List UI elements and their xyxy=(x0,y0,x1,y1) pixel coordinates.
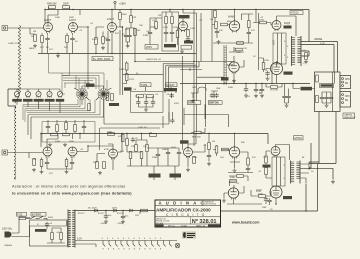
svg-text:BY127: BY127 xyxy=(78,213,85,215)
wire: in-box verticals xyxy=(333,72,335,112)
wire: V2 out verticals xyxy=(120,27,123,95)
svg-text:TAPE: TAPE xyxy=(141,83,148,87)
wire: bottom bus y211 xyxy=(221,143,318,211)
rotary switch S1 xyxy=(76,88,87,99)
svg-text:lo encuentran en el sitio www.: lo encuentran en el sitio www.pcrepara.c… xyxy=(12,192,132,196)
svg-text:15K: 15K xyxy=(219,30,223,32)
ground tone2 xyxy=(63,143,67,147)
capacitor C7' xyxy=(156,152,160,157)
svg-text:250V: 250V xyxy=(112,208,118,210)
svg-text:PARLANTE: PARLANTE xyxy=(344,116,356,119)
wire: V2 cathode xyxy=(96,31,112,54)
dark label T1 xyxy=(124,87,132,90)
resistor R16 xyxy=(187,30,190,37)
tube V1B' xyxy=(68,147,77,158)
ground ch2a xyxy=(32,168,36,172)
svg-text:S.REC 1KΩ: S.REC 1KΩ xyxy=(8,43,20,45)
wire: cout links xyxy=(285,84,289,104)
ground R18' xyxy=(207,162,211,166)
tube V4 xyxy=(228,16,240,33)
capacitor Cf1 xyxy=(104,214,113,219)
capacitor C8' xyxy=(166,150,170,155)
svg-text:470K: 470K xyxy=(92,39,98,41)
capacitor C8 xyxy=(127,33,131,38)
output block 2 xyxy=(272,157,286,186)
capacitor Cp1 xyxy=(45,222,53,227)
label box S1 xyxy=(86,84,95,87)
wire: bundle above stars xyxy=(49,54,108,95)
B+ entry terminal xyxy=(114,1,126,9)
resistor Rm1 xyxy=(106,94,109,101)
wire: fb drops xyxy=(45,7,70,23)
output block xyxy=(273,33,287,64)
transistor pair network xyxy=(191,87,218,98)
boxed label OT2 xyxy=(294,136,304,140)
wire: V1 input xyxy=(8,28,44,34)
capacitor Ct4 xyxy=(46,124,50,129)
resistor Rx128b xyxy=(118,135,124,142)
input jack ch2 xyxy=(2,150,8,155)
svg-text:8Ω: 8Ω xyxy=(345,82,348,85)
wire: y74.4 line xyxy=(123,73,164,75)
svg-text:47K: 47K xyxy=(125,29,129,31)
wire: tape monitor triple xyxy=(163,62,199,92)
wire: feedback line ch2 xyxy=(41,134,268,145)
tube V2' xyxy=(109,149,118,160)
wire: B+ chain xyxy=(126,10,135,62)
svg-text:6AQ5: 6AQ5 xyxy=(284,22,291,25)
resistor R20 xyxy=(248,21,251,28)
value labels channel1 top xyxy=(33,15,306,105)
svg-text:TAMB 1-66: TAMB 1-66 xyxy=(196,224,205,227)
svg-text:22K: 22K xyxy=(131,146,135,148)
resistor Rx128c xyxy=(149,133,157,137)
wire: under box verticals xyxy=(319,112,336,164)
svg-text:1M: 1M xyxy=(210,19,213,21)
ground ch2c xyxy=(65,170,69,174)
resistor R23 xyxy=(259,20,267,24)
svg-text:HOJA 1: HOJA 1 xyxy=(181,224,187,227)
tube V2 xyxy=(107,18,117,33)
resistor R3 feedback xyxy=(47,3,57,9)
wire: to box xyxy=(293,84,315,89)
resistor R10' xyxy=(129,152,132,159)
svg-text:32MF: 32MF xyxy=(143,35,149,37)
svg-text:6AN8: 6AN8 xyxy=(227,64,234,67)
transformer OT1 xyxy=(292,36,302,66)
capacitor Cm3 xyxy=(214,93,218,98)
boxed label FUSE xyxy=(17,212,27,216)
svg-text:470K: 470K xyxy=(173,27,179,29)
capacitor Cs2 xyxy=(324,95,328,100)
resistor R23' xyxy=(258,194,266,198)
resistor R1 grid xyxy=(31,35,36,42)
wire: V4' xyxy=(230,134,248,169)
wire: V6' grid xyxy=(251,190,271,205)
resistor Rp1 xyxy=(51,233,54,240)
capacitor C3' xyxy=(70,160,74,165)
switch contacts xyxy=(31,216,47,220)
resistor Rs2 xyxy=(316,96,319,103)
boxed label left of box xyxy=(145,45,158,50)
resistor R14 xyxy=(155,22,158,29)
wire: ch2 input xyxy=(8,153,44,159)
dark label in box xyxy=(320,84,334,88)
capacitor Cn2 xyxy=(144,100,148,105)
resistor R13 in box xyxy=(171,17,174,24)
resistor Rn1 xyxy=(137,95,144,98)
dark label V7' xyxy=(283,196,292,199)
svg-text:100K: 100K xyxy=(190,28,196,30)
svg-text:12AX7: 12AX7 xyxy=(69,19,77,22)
dark label under band xyxy=(221,77,229,80)
cap network box xyxy=(131,91,164,112)
resistor R3' feedback xyxy=(51,133,58,136)
boxed label LOAD xyxy=(343,113,356,119)
dark label lc xyxy=(263,165,271,168)
svg-text:47K: 47K xyxy=(251,30,255,32)
diode D2 xyxy=(113,209,118,212)
resistor R4' xyxy=(65,160,68,167)
svg-text:3.2Ω: 3.2Ω xyxy=(320,43,325,45)
resistor Rn2 xyxy=(147,95,154,98)
resistor Rm4 xyxy=(270,86,279,92)
ground V7 xyxy=(266,77,270,81)
svg-text:10K: 10K xyxy=(137,30,141,32)
resistor Rb1 on x126.7 xyxy=(125,63,128,70)
wire: c47 xyxy=(246,84,256,88)
ground V4' xyxy=(233,169,237,173)
ground V1A xyxy=(33,44,37,48)
svg-text:470K: 470K xyxy=(163,27,169,29)
wire: V2' links xyxy=(88,134,122,171)
capacitor C1' xyxy=(45,160,49,165)
boxed label mid-ch2 xyxy=(180,140,189,143)
wire: V7' bottom xyxy=(275,198,277,204)
tube V1A xyxy=(44,19,53,33)
svg-text:GRAB.: GRAB. xyxy=(188,102,196,105)
speaker box ch1 xyxy=(315,72,341,112)
svg-text:270V: 270V xyxy=(129,79,135,81)
capacitor Cout1 xyxy=(282,94,286,99)
svg-text:250P: 250P xyxy=(69,141,75,143)
svg-text:12AU7 50K .02: 12AU7 50K .02 xyxy=(146,58,162,61)
dark label C22 xyxy=(170,174,182,178)
boxed label SWITCH xyxy=(31,212,46,216)
resistor R24 under OT xyxy=(305,53,308,60)
tube V6' output xyxy=(271,147,280,158)
pot P3 xyxy=(36,91,41,98)
wire: lc links xyxy=(266,163,272,178)
capacitor C3 cathode V1B xyxy=(70,36,78,43)
resistor R9' plate xyxy=(126,139,129,146)
svg-text:OUT: OUT xyxy=(273,39,276,45)
wire: V7 links xyxy=(266,61,277,84)
resistor R10 xyxy=(130,16,137,23)
svg-text:BY127: BY127 xyxy=(98,213,105,215)
wire: y172 line xyxy=(228,165,253,173)
svg-text:100K: 100K xyxy=(55,141,61,143)
wire: plug to psu xyxy=(16,218,30,237)
transformer OT2 xyxy=(291,161,301,184)
resistor R21' xyxy=(237,175,244,178)
resistor R17' xyxy=(208,143,211,150)
wire: y128 line xyxy=(99,112,172,150)
dark label 6AQ5 xyxy=(284,26,292,29)
svg-text:REV. 20: REV. 20 xyxy=(168,225,175,227)
wire: y114.5 link xyxy=(184,108,228,127)
svg-text:1M: 1M xyxy=(33,159,36,161)
svg-text:470K: 470K xyxy=(256,191,262,193)
resistor R4 cathode V1B xyxy=(64,36,69,50)
svg-text:C I R C U I T O: C I R C U I T O xyxy=(166,213,206,217)
capacitor C2' feedback xyxy=(63,133,70,136)
wire: ch1 bottom bus xyxy=(38,53,196,55)
diode D3 xyxy=(129,209,134,212)
resistor R22' xyxy=(230,180,237,183)
capacitor Cf2 xyxy=(121,214,130,219)
svg-text:47K: 47K xyxy=(252,157,256,159)
capacitor Cx1 xyxy=(170,118,174,123)
wire: box caps gnd xyxy=(322,101,331,103)
ground tone1 xyxy=(48,143,52,147)
resistor R11 xyxy=(134,29,141,36)
dark label V7 xyxy=(284,72,293,75)
wire: OT2 taps xyxy=(300,164,311,183)
resistor Rt2 xyxy=(65,123,68,130)
svg-text:454545454545: 454545454545 xyxy=(102,238,166,240)
ground Cm4 xyxy=(244,94,248,98)
svg-text:100K: 100K xyxy=(55,17,61,19)
svg-text:10K: 10K xyxy=(143,146,147,148)
resistor R18' xyxy=(215,146,218,153)
resistor below star xyxy=(88,104,91,111)
svg-text:ELECTRONICA: ELECTRONICA xyxy=(204,203,217,206)
pot P4 xyxy=(47,91,52,98)
wire: R9 xyxy=(117,10,123,28)
svg-text:330K: 330K xyxy=(228,87,234,89)
boxed label TAPE1 xyxy=(140,83,151,87)
dark label C21 xyxy=(149,174,161,178)
boxed label V3c xyxy=(181,46,192,50)
svg-text:1M: 1M xyxy=(212,141,215,143)
svg-text:470K: 470K xyxy=(264,60,270,62)
capacitor C1 cathode xyxy=(45,36,49,49)
capacitor C13' xyxy=(207,153,211,158)
resistor R-fb2 squiggle xyxy=(191,128,205,139)
resistor Rs1 xyxy=(316,75,319,82)
wire: verticals under splitter xyxy=(183,56,206,150)
svg-text:1K 10W: 1K 10W xyxy=(270,90,279,92)
wire: cap net links xyxy=(135,87,171,107)
svg-text:6AN8: 6AN8 xyxy=(228,16,235,19)
wire: splitter xyxy=(212,10,253,39)
terminal strip A xyxy=(340,76,351,89)
capacitor C11 xyxy=(146,30,152,35)
resistor Rt1 xyxy=(56,125,59,132)
wire: V1B to V2 xyxy=(78,10,89,90)
svg-text:1MF: 1MF xyxy=(216,88,221,90)
svg-text:20MF: 20MF xyxy=(162,149,168,151)
svg-text:6AV6: 6AV6 xyxy=(29,47,35,50)
capacitor Cs3 xyxy=(329,95,333,100)
ground Cf2 xyxy=(121,220,125,224)
boxed label top-right xyxy=(290,11,303,15)
capacitor C9' xyxy=(177,150,181,155)
resistor R8 xyxy=(102,37,109,44)
svg-text:1M: 1M xyxy=(107,92,110,94)
tube V6 output xyxy=(272,21,291,32)
svg-text:12K: 12K xyxy=(243,48,247,50)
resistor left col1 xyxy=(265,156,268,163)
dark label left of box xyxy=(301,87,313,91)
ground bus ch1 xyxy=(56,54,60,58)
tube V1B xyxy=(69,19,78,33)
wire: trafo heater out xyxy=(75,241,100,248)
wire: y69.5 stub xyxy=(180,68,224,77)
capacitor Cm4 xyxy=(244,87,248,92)
svg-text:1M: 1M xyxy=(158,15,161,17)
svg-text:470K: 470K xyxy=(258,194,264,196)
svg-text:250P: 250P xyxy=(69,17,75,19)
svg-text:SPK: SPK xyxy=(345,95,350,98)
label in box xyxy=(164,44,176,47)
svg-text:BY127: BY127 xyxy=(117,213,124,215)
label strip P3 xyxy=(34,99,44,102)
svg-text:250V: 250V xyxy=(146,45,152,49)
resistor R7 xyxy=(92,38,98,45)
ground V2' xyxy=(98,171,102,175)
resistor left col2 xyxy=(265,168,268,175)
svg-text:+285V: +285V xyxy=(117,223,124,225)
svg-text:220K: 220K xyxy=(122,14,128,16)
resistor R2 cathode xyxy=(40,36,45,50)
rotary switch S2 xyxy=(98,88,109,99)
heater chain xyxy=(100,241,177,247)
wire: V5' pins xyxy=(224,186,244,204)
shield zigzag xyxy=(14,106,16,180)
wire: V5 pins xyxy=(229,60,244,84)
wire: to V5 xyxy=(229,47,244,62)
wire: OT1 taps xyxy=(301,42,338,73)
boxed label TAPE2 xyxy=(166,83,178,87)
wire: to V5' xyxy=(229,176,248,188)
dark label T1b xyxy=(109,103,119,106)
wire: x126.7 chain xyxy=(123,62,127,84)
label strip P1 xyxy=(12,99,22,102)
wire: cbus1 xyxy=(261,84,263,88)
resistor Rm2 xyxy=(111,94,114,101)
wire: star links xyxy=(82,86,104,88)
capacitor C7 xyxy=(122,33,128,38)
wire: rm4 xyxy=(266,64,282,87)
svg-text:12AX7: 12AX7 xyxy=(107,18,115,21)
label strip P2 xyxy=(23,99,33,102)
tube V4' xyxy=(229,147,239,159)
tube V5 xyxy=(227,62,239,74)
ground R18 xyxy=(217,40,221,44)
wire: y204 line xyxy=(227,203,262,205)
capacitor C12 xyxy=(186,37,190,42)
cap net in box xyxy=(322,92,331,95)
wire: rv7 xyxy=(259,58,264,72)
capacitor Cy2 xyxy=(267,198,271,203)
resistor Rb2 on x126.7 xyxy=(125,74,128,81)
svg-text:SIL 300V: SIL 300V xyxy=(88,208,97,210)
tube V1A' xyxy=(43,147,52,158)
resistor R21 on y43 xyxy=(237,42,244,45)
wire: OT2 right links xyxy=(309,162,336,180)
pot P2 xyxy=(25,91,30,98)
resistor R12' xyxy=(140,152,143,159)
shield zigzag upper xyxy=(15,25,21,103)
capacitor Cx128 xyxy=(131,137,139,142)
capacitor C14 xyxy=(247,30,251,35)
label strip P5 xyxy=(56,99,64,102)
wire: verticals 194-196 mid xyxy=(194,62,205,147)
input jack ch1 xyxy=(2,26,8,31)
capacitor Cs1 xyxy=(320,95,324,100)
capacitor Cm2 xyxy=(210,93,214,98)
value labels channel2 xyxy=(33,141,314,211)
ground V3' xyxy=(186,168,190,172)
wire: box connects xyxy=(166,10,172,43)
wire: splitter2 xyxy=(209,134,229,162)
ground Cout xyxy=(285,104,289,108)
ground V3 xyxy=(180,50,184,54)
wire: cathode bus ch1 xyxy=(42,33,73,54)
svg-text:NFB 56K: NFB 56K xyxy=(192,137,201,139)
resistor R11' xyxy=(135,145,138,152)
wire: nest horizontals xyxy=(23,99,104,122)
capacitor C6 xyxy=(106,37,110,42)
diode D1 xyxy=(94,209,99,212)
pilot lamp xyxy=(175,243,180,248)
capacitor Cn1 xyxy=(136,100,140,105)
tube V7' big xyxy=(270,186,282,198)
svg-text:FUS.: FUS. xyxy=(17,213,23,216)
wire: ch2 B chain xyxy=(127,134,179,167)
capacitor C9 in box xyxy=(164,30,168,35)
resistor Rx128a xyxy=(107,132,115,136)
capacitor C47MF xyxy=(254,87,263,95)
svg-text:10K: 10K xyxy=(139,25,143,27)
svg-text:1M: 1M xyxy=(33,31,36,33)
ground ch2b xyxy=(40,170,44,174)
wire: V6' top xyxy=(266,145,290,161)
resistor R22 xyxy=(235,48,242,51)
svg-text:400V: 400V xyxy=(48,217,54,219)
capacitor Cbus1 xyxy=(260,87,264,92)
svg-text:470K: 470K xyxy=(104,149,110,151)
capacitor Cn4 xyxy=(170,93,174,98)
capacitor Cout2 xyxy=(286,94,290,99)
tube V3' xyxy=(184,148,193,159)
svg-text:450V: 450V xyxy=(174,103,180,105)
ground box xyxy=(325,104,329,108)
wire: nest to ch2 xyxy=(28,115,169,139)
capacitor Cy1 xyxy=(264,197,268,202)
resistor Rp2 xyxy=(60,233,63,240)
hatched band x225 xyxy=(224,45,227,85)
resistor Rx1 xyxy=(193,157,196,164)
svg-text:12AX7: 12AX7 xyxy=(44,19,52,22)
svg-text:100K: 100K xyxy=(192,157,198,159)
ground V5 xyxy=(232,79,236,83)
dark label psu xyxy=(35,229,47,232)
wire: pot tops xyxy=(17,89,60,91)
ground tr xyxy=(191,99,195,103)
